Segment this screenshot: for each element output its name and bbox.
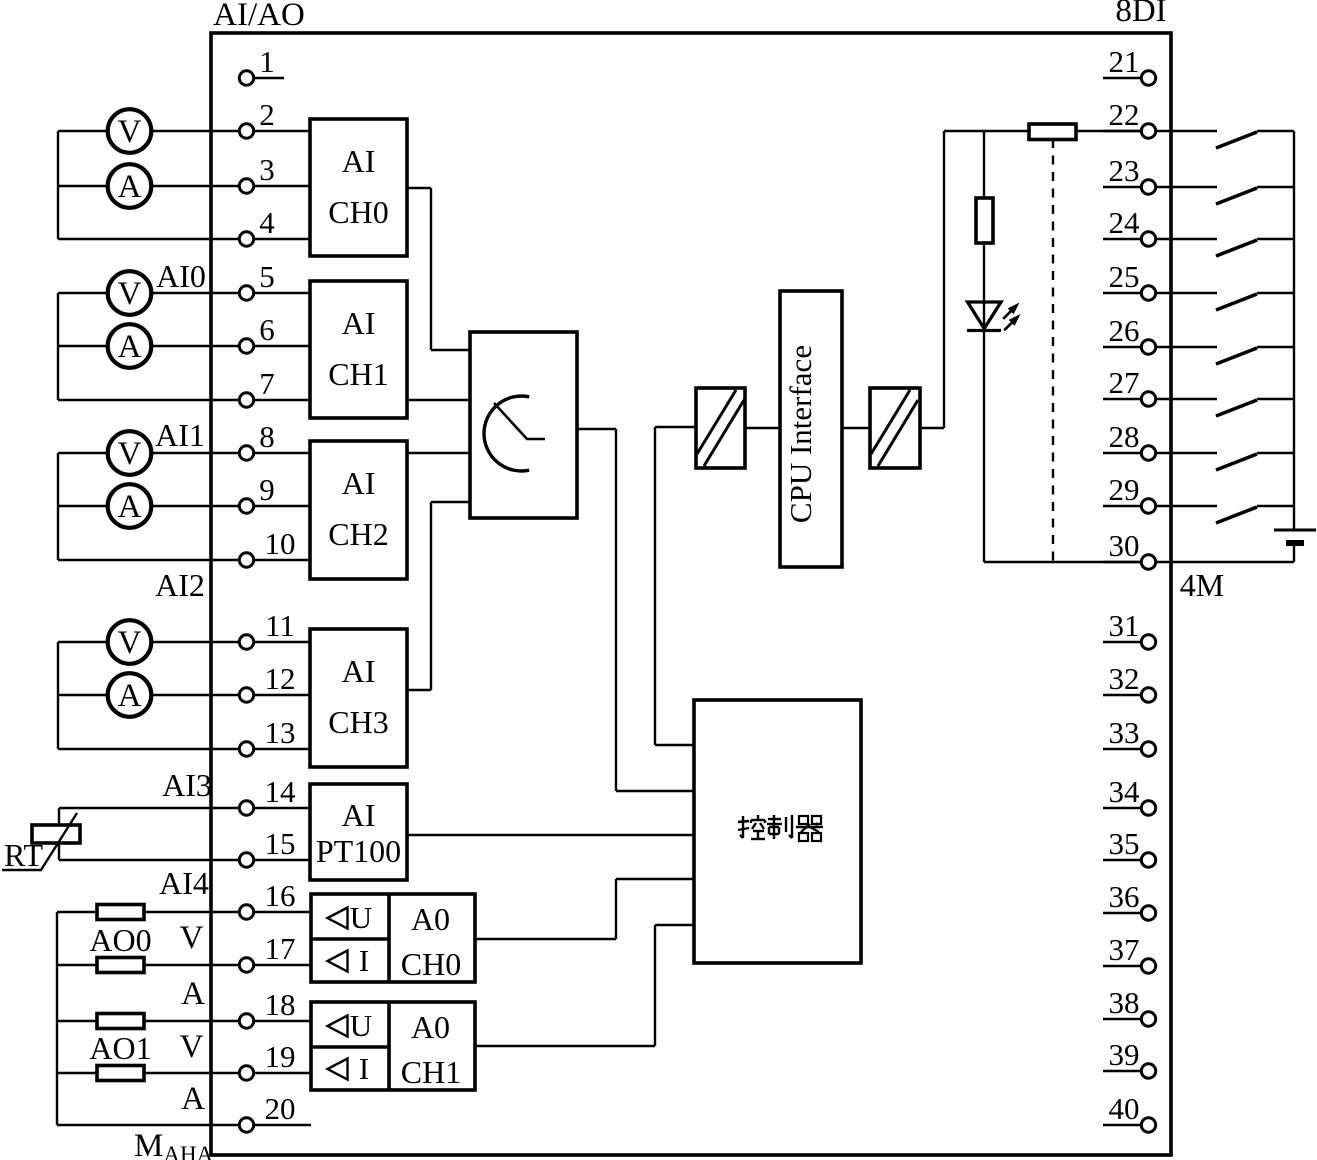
voltmeter V (rows 11) [108,620,152,664]
svg-text:A: A [118,678,142,714]
terminal 25 [1141,286,1155,300]
voltmeter V (rows 5) [108,271,152,315]
svg-text:2: 2 [259,97,275,132]
wire terminal 35 stub [1103,859,1141,861]
svg-text:29: 29 [1109,472,1140,507]
svg-text:AI3: AI3 [162,767,212,803]
switch S1 on terminal 22 [1156,130,1217,132]
wire terminal 39 stub [1103,1070,1141,1072]
terminal 34 [1141,801,1155,815]
svg-text:36: 36 [1109,879,1140,914]
terminal 39 [1141,1064,1155,1078]
isolator U2 (opto barrier) [870,388,920,468]
svg-text:PT100: PT100 [316,833,401,869]
svg-text:25: 25 [1109,259,1140,294]
wire switch common rail [1293,131,1295,530]
switch S3 on terminal 24 [1156,238,1217,240]
wire terminal 17 row [57,964,311,966]
svg-text:18: 18 [265,987,296,1022]
svg-text:5: 5 [259,259,275,294]
terminal 13 [239,742,253,756]
svg-text:A: A [181,976,205,1012]
wire terminal 22 stub [1103,130,1141,132]
ammeter A (rows 12) [108,673,152,717]
svg-text:V: V [118,276,142,312]
wire terminal 36 stub [1103,912,1141,914]
svg-text:20: 20 [265,1091,296,1126]
svg-text:AI2: AI2 [155,567,205,603]
wire AI CH0 output [407,187,431,189]
svg-text:12: 12 [265,661,296,696]
svg-text:15: 15 [265,826,296,861]
svg-text:CH0: CH0 [401,946,461,982]
wire terminal 11 row [58,641,310,643]
wire terminal 3 row [58,185,310,187]
ammeter A (rows 6) [108,324,152,368]
resistor load row 19 [97,1066,144,1081]
wire terminal 12 row [58,694,310,696]
terminal 37 [1141,959,1155,973]
terminal 5 [239,286,253,300]
svg-text:AI1: AI1 [155,417,205,453]
svg-text:AI: AI [342,653,376,689]
svg-text:7: 7 [259,366,275,401]
wire multiplexer output [577,428,616,430]
svg-text:V: V [118,625,142,661]
svg-text:24: 24 [1109,205,1141,240]
svg-text:A: A [118,329,142,365]
svg-text:16: 16 [265,878,296,913]
wire group bracket vertical [57,131,59,239]
svg-text:AI: AI [342,143,376,179]
svg-text:3: 3 [259,152,275,187]
wire terminal 19 row [57,1072,311,1074]
svg-text:21: 21 [1109,44,1140,79]
svg-text:AO0: AO0 [89,922,151,958]
terminal 31 [1141,635,1155,649]
wire battery to terminal 30 [1156,561,1294,563]
isolator U1 (opto barrier) [696,388,745,468]
module boundary AI/AO + 8DI [211,33,1171,1155]
ammeter A (rows 3) [108,164,152,208]
svg-text:AI: AI [342,465,376,501]
wire terminal 2 row [58,130,310,132]
svg-text:17: 17 [265,931,296,966]
wire terminal 30 row [984,561,1141,563]
terminal 7 [239,393,253,407]
wire terminal 31 stub [1103,641,1141,643]
terminal 35 [1141,853,1155,867]
svg-text:V: V [118,114,142,150]
svg-text:28: 28 [1109,419,1140,454]
block CPU Interface [780,291,842,567]
wire terminal 33 stub [1103,748,1141,750]
svg-text:37: 37 [1109,932,1140,967]
thermistor RT body [32,825,80,843]
terminal 19 [239,1066,253,1080]
switch S4 on terminal 25 [1156,292,1217,294]
block AI PT100 [310,784,407,880]
svg-text:38: 38 [1109,985,1140,1020]
terminal 32 [1141,688,1155,702]
terminal 17 [239,958,253,972]
svg-text:AI: AI [342,305,376,341]
controller label 控制器 (drawn) [738,815,823,841]
wire terminal 27 stub [1103,398,1141,400]
wire isolator1 to CPU interface [745,427,780,429]
wire terminal 30 stub [1103,561,1141,563]
svg-text:33: 33 [1109,715,1140,750]
svg-text:26: 26 [1109,313,1140,348]
wire AO CH1 output [475,1045,655,1047]
wire terminal 34 stub [1103,807,1141,809]
block AI CH3 [310,629,407,767]
switch S6 on terminal 27 [1156,398,1217,400]
multiplexer selector symbol [484,396,529,471]
block AI CH2 [310,441,407,579]
terminal 28 [1141,446,1155,460]
svg-text:CH1: CH1 [401,1054,461,1090]
terminal 3 [239,179,253,193]
resistor R2 vertical [976,198,993,243]
terminal 16 [239,905,253,919]
wire terminal 10 row [58,559,310,561]
switch S5 on terminal 26 [1156,346,1217,348]
wire terminal 18 row [57,1020,311,1022]
wire terminal 37 stub [1103,965,1141,967]
terminal 36 [1141,906,1155,920]
svg-text:I: I [359,1051,369,1086]
svg-text:AI/AO: AI/AO [213,0,305,33]
terminal 33 [1141,742,1155,756]
svg-text:AI4: AI4 [159,865,209,901]
svg-text:V: V [180,1029,204,1065]
svg-text:A: A [118,489,142,525]
wire isolator2 to DI network [920,427,944,429]
svg-text:4: 4 [259,205,275,240]
svg-text:A0: A0 [411,901,450,937]
terminal 29 [1141,499,1155,513]
resistor R1 horizontal [1029,124,1076,140]
wire group bracket vertical [57,453,59,560]
switch S2 on terminal 23 [1156,186,1217,188]
wire AO bracket vertical [56,912,58,1125]
wire AO CH0 output [475,938,616,940]
svg-text:CH1: CH1 [328,356,388,392]
terminal 24 [1141,232,1155,246]
svg-text:32: 32 [1109,661,1140,696]
terminal 40 [1141,1118,1155,1132]
terminal 2 [239,124,253,138]
svg-text:13: 13 [265,715,296,750]
terminal 20 [239,1118,253,1132]
thermistor RT strike line [2,813,77,870]
wire group bracket vertical [57,642,59,749]
wire AI CH3 output [407,689,431,691]
svg-text:9: 9 [259,472,275,507]
wire terminal 15 row [59,859,310,861]
voltmeter V (rows 2) [108,109,152,153]
LED light arrows [1003,303,1020,331]
wire RT branch vertical [58,808,60,860]
wire terminal 23 stub [1103,186,1141,188]
terminal 21 [1141,71,1155,85]
svg-text:31: 31 [1109,608,1140,643]
block AI CH1 [310,281,407,418]
wire terminal 16 row [57,911,311,913]
wire terminal 20 row [57,1124,311,1126]
svg-text:CH0: CH0 [328,194,388,230]
terminal 6 [239,339,253,353]
svg-text:AI0: AI0 [156,258,206,294]
terminal 27 [1141,392,1155,406]
svg-text:AO1: AO1 [89,1030,151,1066]
svg-text:AI: AI [342,797,376,833]
battery G1 [1274,529,1316,532]
svg-text:10: 10 [265,526,296,561]
terminal 18 [239,1014,253,1028]
wire node 1L to terminal 22 [944,130,1141,132]
wire terminal 21 stub [1103,77,1141,79]
dashed optocoupler link [1052,139,1054,562]
svg-text:4M: 4M [1180,567,1224,603]
switch S8 on terminal 29 [1156,505,1217,507]
wire AI PT100 output [407,834,694,836]
svg-text:CPU Interface: CPU Interface [783,345,818,523]
wire CPU interface to isolator2 [842,427,870,429]
wire controller to isolator [655,426,696,428]
wire terminal 7 row [58,399,310,401]
svg-text:1: 1 [259,44,275,79]
block AO CH0 with U/I amplifiers [311,894,475,982]
terminal 15 [239,853,253,867]
terminal 12 [239,688,253,702]
svg-text:A: A [181,1081,205,1117]
voltmeter V (rows 8) [108,431,152,475]
svg-text:6: 6 [259,312,275,347]
svg-text:RT: RT [4,837,43,873]
terminal 26 [1141,340,1155,354]
ammeter A (rows 9) [108,484,152,528]
svg-text:U: U [350,1008,372,1043]
multiplexer block [470,332,577,518]
wire terminal 26 stub [1103,346,1141,348]
svg-text:14: 14 [265,774,297,809]
switch S7 on terminal 28 [1156,452,1217,454]
svg-text:V: V [180,920,204,956]
svg-text:19: 19 [265,1039,296,1074]
wire terminal 25 stub [1103,292,1141,294]
svg-text:U: U [350,900,372,935]
terminal 9 [239,499,253,513]
wire terminal 6 row [58,345,310,347]
wire terminal 9 row [58,505,310,507]
svg-text:23: 23 [1109,153,1140,188]
wire terminal 13 row [58,748,310,750]
terminal 4 [239,232,253,246]
svg-text:A0: A0 [411,1009,450,1045]
terminal 8 [239,446,253,460]
wire terminal 24 stub [1103,238,1141,240]
svg-text:34: 34 [1109,774,1141,809]
wire AI CH2 output [407,452,470,454]
svg-text:11: 11 [265,608,295,643]
terminal 22 [1141,124,1155,138]
terminal 38 [1141,1012,1155,1026]
svg-text:CH2: CH2 [328,516,388,552]
resistor load row 17 [97,958,144,973]
resistor load row 16 [97,905,144,920]
terminal 23 [1141,180,1155,194]
wire terminal 14 row [59,807,310,809]
terminal 1 [239,71,253,85]
wire terminal 1 stub [252,77,284,79]
LED indicator D1 [968,302,1002,329]
wire terminal 4 row [58,238,310,240]
terminal 11 [239,635,253,649]
svg-text:A: A [118,169,142,205]
wire terminal 38 stub [1103,1018,1141,1020]
wire terminal 29 stub [1103,505,1141,507]
block AI CH0 [310,119,407,256]
wire LED branch vertical [983,131,985,562]
svg-text:I: I [359,943,369,978]
wire AI CH1 output [407,399,470,401]
wire terminal 32 stub [1103,694,1141,696]
terminal 14 [239,801,253,815]
wire terminal 5 row [58,292,310,294]
resistor load row 18 [97,1014,144,1029]
svg-text:8: 8 [259,419,275,454]
wire group bracket vertical [57,293,59,400]
terminal 30 [1141,555,1155,569]
svg-text:27: 27 [1109,365,1140,400]
svg-text:30: 30 [1109,528,1140,563]
block AO CH1 with U/I amplifiers [311,1002,475,1090]
svg-text:35: 35 [1109,826,1140,861]
wire terminal 28 stub [1103,452,1141,454]
svg-text:39: 39 [1109,1037,1140,1072]
terminal 10 [239,553,253,567]
block controller (Chinese) [694,700,861,963]
svg-text:V: V [118,436,142,472]
wire terminal 40 stub [1103,1124,1141,1126]
svg-text:40: 40 [1109,1091,1140,1126]
svg-text:8DI: 8DI [1115,0,1166,29]
svg-text:22: 22 [1109,97,1140,132]
wire terminal 8 row [58,452,310,454]
svg-text:CH3: CH3 [328,704,388,740]
